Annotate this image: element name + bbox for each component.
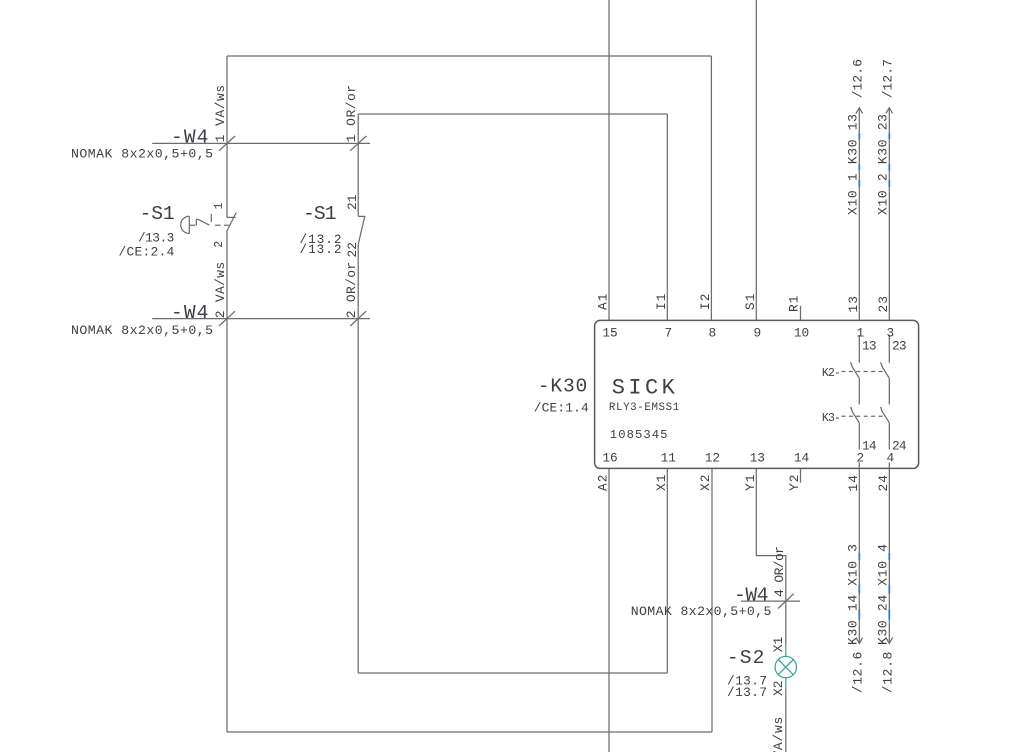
svg-text:21: 21 (345, 194, 360, 210)
svg-text:X10 2 K30 23: X10 2 K30 23 (876, 114, 891, 215)
svg-text:/13.7: /13.7 (727, 685, 767, 700)
svg-text:/CE:2.4: /CE:2.4 (119, 244, 175, 259)
svg-text:8: 8 (709, 325, 717, 340)
svg-text:3 VA/ws: 3 VA/ws (771, 717, 786, 752)
svg-text:Y1: Y1 (743, 474, 758, 491)
svg-text:15: 15 (602, 325, 617, 340)
svg-text:23: 23 (892, 338, 907, 353)
svg-text:-W4: -W4 (171, 302, 208, 324)
svg-text:13: 13 (846, 296, 861, 313)
svg-text:K3-: K3- (822, 412, 841, 425)
svg-text:K30 14 X10 3: K30 14 X10 3 (846, 544, 861, 645)
svg-text:14: 14 (862, 438, 877, 453)
svg-text:R1: R1 (787, 295, 802, 312)
svg-text:4 OR/or: 4 OR/or (772, 546, 787, 597)
svg-text:1085345: 1085345 (610, 428, 668, 442)
svg-text:-S1: -S1 (140, 203, 175, 225)
svg-text:NOMAK 8x2x0,5+0,5: NOMAK 8x2x0,5+0,5 (631, 604, 772, 619)
svg-text:24: 24 (892, 438, 907, 453)
svg-text:13: 13 (862, 338, 877, 353)
svg-text:9: 9 (753, 325, 761, 340)
svg-text:2 OR/or: 2 OR/or (344, 262, 359, 319)
svg-text:X10 1 K30 13: X10 1 K30 13 (846, 114, 861, 215)
svg-text:NOMAK 8x2x0,5+0,5: NOMAK 8x2x0,5+0,5 (71, 323, 213, 338)
svg-text:-W4: -W4 (171, 127, 208, 149)
svg-text:10: 10 (794, 325, 809, 340)
svg-text:13: 13 (750, 451, 765, 466)
svg-text:14: 14 (846, 475, 861, 492)
svg-text:X2: X2 (771, 680, 786, 696)
svg-text:-K30: -K30 (538, 375, 588, 397)
svg-text:14: 14 (794, 451, 810, 466)
svg-text:/13.3: /13.3 (138, 231, 174, 246)
svg-text:NOMAK 8x2x0,5+0,5: NOMAK 8x2x0,5+0,5 (71, 146, 213, 161)
svg-text:X2: X2 (698, 475, 713, 492)
svg-text:/12.6: /12.6 (851, 59, 866, 98)
svg-text:K30 24 X10 4: K30 24 X10 4 (876, 544, 891, 645)
svg-text:X1: X1 (654, 474, 669, 491)
svg-text:K2-: K2- (822, 367, 841, 380)
svg-text:2 VA/ws: 2 VA/ws (213, 262, 228, 319)
svg-text:23: 23 (876, 296, 891, 313)
svg-text:/12.7: /12.7 (881, 59, 896, 98)
svg-text:24: 24 (876, 475, 891, 492)
svg-text:1 OR/or: 1 OR/or (344, 85, 359, 143)
svg-text:7: 7 (664, 325, 672, 340)
svg-text:12: 12 (705, 451, 720, 466)
svg-text:RLY3-EMSS1: RLY3-EMSS1 (609, 402, 679, 414)
svg-text:/12.8: /12.8 (881, 652, 896, 694)
svg-text:-W4: -W4 (734, 584, 769, 606)
svg-text:I1: I1 (654, 293, 669, 310)
svg-text:22: 22 (345, 242, 360, 257)
svg-text:/13.2: /13.2 (300, 242, 342, 257)
svg-text:Y2: Y2 (787, 475, 802, 492)
svg-text:I2: I2 (698, 294, 713, 311)
svg-text:A1: A1 (595, 293, 610, 310)
svg-text:S1: S1 (743, 293, 758, 310)
svg-text:1: 1 (213, 203, 226, 210)
svg-text:-S2: -S2 (727, 647, 765, 669)
svg-text:1 VA/ws: 1 VA/ws (213, 85, 228, 142)
svg-text:11: 11 (661, 451, 677, 466)
svg-text:/12.6: /12.6 (851, 652, 866, 694)
svg-text:-S1: -S1 (303, 203, 337, 225)
svg-text:SICK: SICK (612, 375, 676, 400)
svg-text:2: 2 (213, 241, 226, 248)
svg-text:A2: A2 (595, 475, 610, 492)
svg-text:X1: X1 (771, 637, 786, 653)
svg-text:16: 16 (602, 451, 617, 466)
svg-text:/CE:1.4: /CE:1.4 (534, 400, 589, 415)
